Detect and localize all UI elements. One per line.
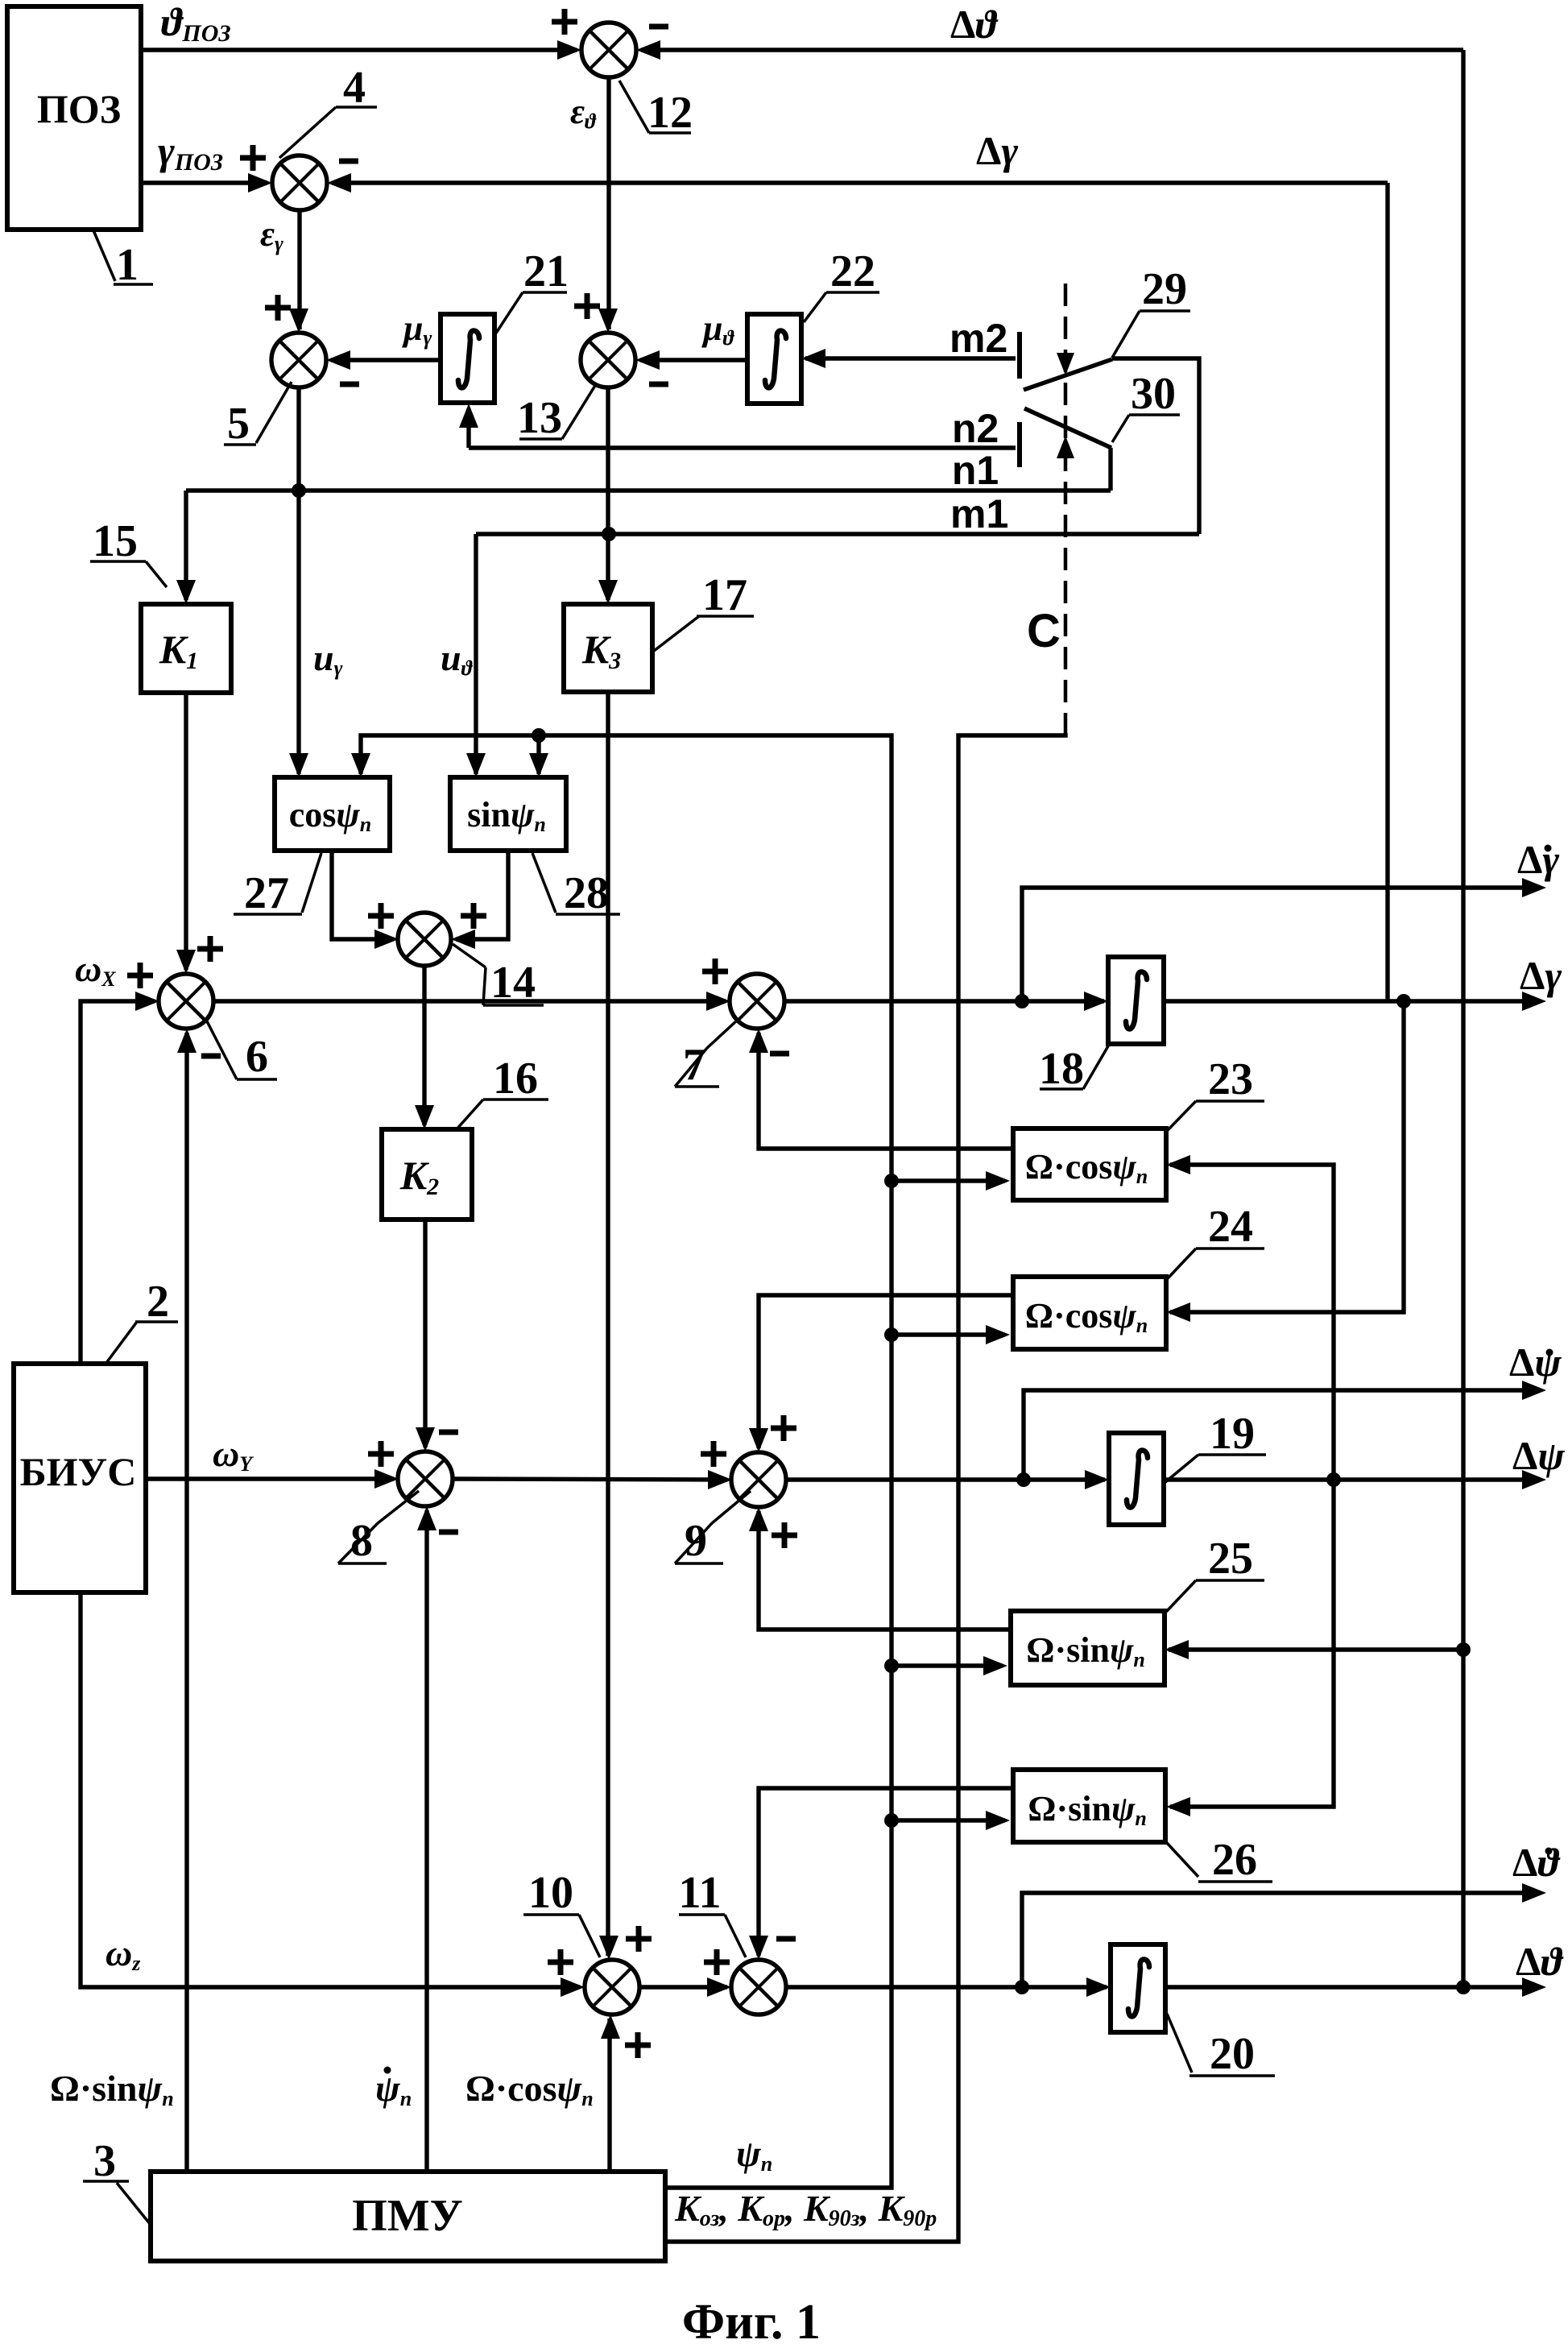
wire m2 from switch contact to integrator 22 (805, 356, 1016, 360)
svg-text:m1: m1 (950, 491, 1008, 536)
wire from block 28 to summator 14 (456, 851, 508, 939)
plus sign at summator 8 left input (368, 1441, 394, 1467)
summator 7 (730, 974, 784, 1029)
wire Delta gamma output from integrator 18 (1164, 999, 1540, 1003)
wire mu_gamma from integrator 21 to summator 5 (331, 358, 441, 362)
svg-text:m2: m2 (949, 316, 1007, 361)
plus sign at summator 6 left input (127, 963, 153, 988)
switch 30 pivot riser (1108, 448, 1112, 491)
svg-text:n1: n1 (952, 448, 999, 493)
svg-text:2: 2 (147, 1277, 169, 1327)
wire from summator 6 to summator 7 (213, 999, 726, 1003)
block 2 БИУС (14, 1364, 146, 1592)
svg-text:sinψn: sinψn (467, 795, 546, 836)
wire Delta gamma feedback from output to summator 4 (332, 180, 1388, 184)
plus sign at summator 14 right input (461, 903, 486, 929)
junction dot of summator 13 output on m1 (602, 527, 616, 541)
svg-text:23: 23 (1208, 1054, 1253, 1104)
svg-text:22: 22 (830, 246, 875, 296)
junction dot Delta psi dot tap (1016, 1472, 1031, 1487)
wire from summator 10 to summator 11 (639, 1985, 727, 1989)
junction dot on u_gamma at n1 line (292, 483, 306, 498)
summator 5 (271, 333, 326, 387)
junction dot psi_n to block 28 (532, 728, 546, 743)
branch psi_n into block 23 (892, 1178, 1005, 1182)
svg-text:29: 29 (1142, 264, 1187, 314)
plus sign at summator 4 input (240, 145, 266, 171)
svg-text:Δϑ: Δϑ (1512, 1840, 1561, 1885)
switch blade 29 (1024, 359, 1112, 390)
svg-text:Δψ: Δψ (1509, 1340, 1562, 1385)
summator 14 (398, 913, 451, 966)
minus sign at summator 6 bottom input (201, 1054, 221, 1059)
summator 11 (731, 1960, 786, 2015)
function block 26 Omega sin psi_n (1013, 1770, 1165, 1842)
switch contact m2 (1017, 332, 1022, 379)
block 3 ПМУ (151, 2172, 665, 2261)
block 1 ПОЗ (7, 6, 141, 230)
junction dot psi_n to block 26 (884, 1813, 899, 1828)
plus sign at summator 12 input (552, 9, 577, 35)
svg-text:cosψn: cosψn (289, 795, 372, 836)
plus sign at summator 10 left input (548, 1949, 573, 1975)
wire from summator 9 into integrator 19 (786, 1477, 1105, 1481)
junction dot Delta theta feedback at output (1456, 1980, 1471, 1994)
svg-text:12: 12 (647, 88, 693, 138)
svg-text:10: 10 (528, 1868, 573, 1918)
svg-text:C: C (1027, 605, 1061, 657)
branch psi_n into block 25 (892, 1663, 1003, 1667)
svg-text:1: 1 (116, 240, 139, 290)
wire from summator 13 down to K3 (606, 387, 610, 600)
svg-text:24: 24 (1208, 1202, 1253, 1252)
dashed control line C through switches (1064, 284, 1068, 733)
wire from block 25 output to summator 9 bottom (759, 1511, 1011, 1630)
wire n2 from switch contact to integrator 21 (469, 445, 1016, 449)
minus sign at summator 7 bottom input (770, 1051, 789, 1057)
svg-text:Ω·sinψn: Ω·sinψn (1026, 1630, 1145, 1671)
wire Delta theta feedback from output to summator 12 (641, 48, 1463, 52)
gain block K2 (382, 1129, 472, 1220)
wire from block 27 to summator 14 (332, 851, 394, 939)
svg-text:13: 13 (517, 393, 562, 443)
svg-text:БИУС: БИУС (20, 1449, 137, 1494)
svg-text:28: 28 (564, 868, 609, 918)
m1 right riser to blade 29 (1112, 358, 1199, 534)
svg-text:21: 21 (523, 246, 569, 296)
function block 25 Omega sin psi_n (1011, 1611, 1165, 1685)
summator 8 (398, 1451, 453, 1506)
wire from summator 7 into integrator 18 (784, 999, 1104, 1003)
svg-text:n2: n2 (952, 406, 999, 451)
wire from block 24 output to summator 9 top (759, 1295, 1013, 1448)
plus sign at summator 10 bottom input (625, 2032, 651, 2058)
wire Delta psi output from integrator 19 (1164, 1477, 1540, 1481)
function block 28 sin psi_n (450, 777, 566, 851)
svg-text:4: 4 (343, 63, 366, 113)
plus sign at summator 5 top input (265, 295, 291, 321)
wire Delta psi riser feeding blocks 23 and 26 (1170, 1165, 1334, 1807)
minus sign at summator 11 top input (776, 1936, 796, 1942)
wire u_theta down into block 28 (474, 534, 478, 774)
svg-text:25: 25 (1208, 1534, 1253, 1584)
plus sign at summator 6 top input (197, 936, 223, 962)
branch psi_n into block 24 (892, 1332, 1005, 1336)
wire omega_Y from БИУС to summator 8 (146, 1476, 394, 1480)
integrator 20 (1111, 1944, 1165, 2032)
vertical Delta gamma feedback line (1385, 183, 1389, 1001)
minus sign at summator 8 bottom input (439, 1530, 458, 1535)
branch psi_n into block 26 (892, 1818, 1005, 1822)
junction dot psi_n to block 23 (884, 1174, 899, 1188)
svg-text:30: 30 (1131, 369, 1176, 419)
branch psi_n into block 28 (536, 735, 540, 774)
wire from block 26 output to summator 11 top (759, 1788, 1013, 1956)
plus sign at summator 9 bottom input (772, 1522, 797, 1548)
wire omega_X from БИУС top to summator 6 (81, 1001, 155, 1364)
junction dot Delta theta to block 25 (1456, 1642, 1471, 1657)
wire epsilon_gamma from summator 4 to summator 5 (297, 210, 301, 329)
integrator 22 (747, 314, 801, 404)
gain block K3 (564, 604, 652, 692)
leader and numeral 3 for block ПМУ (117, 2183, 151, 2225)
switch blade 30 (1024, 408, 1111, 448)
gain block K1 (141, 604, 231, 693)
svg-text:Δγ: Δγ (1520, 953, 1562, 998)
junction dot Delta theta dot tap (1015, 1980, 1029, 1994)
minus sign at summator 8 top input (439, 1430, 458, 1435)
wire psi_dot_n from ПМУ up to summator 8 (424, 1510, 428, 2172)
wire Delta psi dot output (1024, 1390, 1540, 1480)
wire from summator 11 into integrator 20 (786, 1985, 1107, 1989)
svg-text:Ω·sinψn: Ω·sinψn (1028, 1789, 1147, 1830)
function block 23 Omega cos psi_n (1013, 1128, 1166, 1200)
wire psi_n from ПМУ to function blocks (361, 735, 892, 2188)
svg-text:15: 15 (93, 516, 138, 566)
wire gamma_POZ from ПОЗ to summator 4 (141, 180, 267, 184)
minus sign at summator 5 right input (340, 382, 359, 387)
plus sign at summator 10 top input (626, 1926, 652, 1952)
svg-text:Ω·cosψn: Ω·cosψn (1025, 1296, 1148, 1337)
integrator 19 (1109, 1433, 1164, 1525)
wire omega_z from БИУС bottom to summator 10 (81, 1592, 580, 1987)
svg-text:5: 5 (227, 399, 250, 449)
wire from summator 14 to K2 (422, 966, 426, 1125)
junction dot psi_n to block 25 (884, 1659, 899, 1673)
svg-text:18: 18 (1039, 1044, 1084, 1094)
minus sign at summator 4 right input (339, 159, 358, 164)
minus sign at summator 13 right input (649, 382, 668, 387)
switch contact n2 (1017, 422, 1022, 467)
wire epsilon_theta from summator 12 to summator 13 (606, 77, 610, 329)
wire Delta theta dot output (1022, 1893, 1540, 1987)
summator 10 (585, 1960, 639, 2015)
svg-text:19: 19 (1210, 1409, 1255, 1459)
plus sign at summator 7 left input (702, 959, 728, 984)
svg-text:27: 27 (244, 868, 289, 918)
svg-text:ПМУ: ПМУ (352, 2191, 463, 2241)
summator 13 (581, 333, 635, 387)
svg-text:20: 20 (1210, 2029, 1255, 2079)
wire Delta theta output from integrator 20 (1165, 1985, 1540, 1989)
junction dot psi_n to block 24 (884, 1327, 899, 1342)
svg-text:Фиг. 1: Фиг. 1 (682, 2295, 821, 2348)
wire from K2 to summator 8 (423, 1220, 427, 1447)
svg-text:Δϑ: Δϑ (950, 2, 999, 47)
wire from summator 5 down to block 27 (u_gamma) (296, 387, 300, 774)
wire mu_theta from integrator 22 to summator 13 (640, 358, 747, 362)
svg-text:Ω·cosψn: Ω·cosψn (465, 2068, 594, 2110)
wire Omega cos psi_n from ПМУ up to summator 10 (607, 2019, 611, 2172)
svg-text:Δψ: Δψ (1512, 1433, 1565, 1478)
wire from block 23 output to summator 7 bottom (759, 1033, 1013, 1149)
wire m1 from u_theta corner to switch 29 (476, 532, 1199, 536)
integrator 18 (1108, 957, 1164, 1044)
wire Omega sin psi_n from ПМУ up to summator 6 (184, 1033, 188, 2172)
plus sign at summator 11 left input (704, 1949, 730, 1975)
function block 24 Omega cos psi_n (1013, 1277, 1166, 1349)
summator 4 (272, 155, 327, 210)
junction dot Delta gamma feedback (1396, 994, 1411, 1008)
svg-text:6: 6 (246, 1032, 268, 1082)
plus sign at summator 9 left input (701, 1441, 726, 1467)
wire Delta gamma from junction down to block 24 (1170, 1001, 1404, 1312)
svg-text:Δϑ: Δϑ (1516, 1939, 1564, 1984)
svg-text:Δγ: Δγ (976, 128, 1018, 173)
svg-text:11: 11 (679, 1868, 722, 1918)
leader and numeral 1 for block ПОЗ (93, 230, 115, 281)
wire Delta gamma dot output (1022, 888, 1540, 1001)
summator 12 (581, 23, 636, 77)
svg-text:Ω·sinψn: Ω·sinψn (50, 2068, 174, 2110)
minus sign at summator 12 right input (649, 24, 668, 30)
junction dot Delta gamma dot tap (1015, 994, 1029, 1008)
summator 9 (731, 1452, 786, 1507)
vertical Delta theta feedback line at right (1461, 50, 1465, 1987)
wire from K3 down to summator 10 (606, 692, 610, 1956)
svg-text:ПОЗ: ПОЗ (37, 86, 121, 131)
svg-text:17: 17 (702, 570, 747, 620)
summator 6 (159, 974, 213, 1029)
wire theta_POZ from ПОЗ to summator 12 (141, 48, 577, 52)
control arrow onto blade 29 (1057, 353, 1074, 375)
function block 27 cos psi_n (275, 777, 390, 851)
svg-text:Ω·cosψn: Ω·cosψn (1025, 1147, 1148, 1188)
wire from summator 8 to summator 9 (453, 1479, 727, 1480)
leader and numeral 2 for block БИУС (106, 1322, 137, 1363)
plus sign at summator 9 top input (771, 1415, 796, 1441)
wire Delta theta branch into block 25 (1169, 1647, 1463, 1651)
control arrow onto blade 30 (1057, 436, 1074, 458)
n2 branch up into integrator 21 (466, 408, 470, 448)
plus sign at summator 13 top input (574, 293, 600, 319)
n1 branch down into K1 (184, 491, 188, 600)
wire n1 from junction to switch 30 (186, 488, 1111, 492)
integrator 21 (441, 314, 494, 403)
wire C from ПМУ bus up to switch control (665, 733, 1065, 2242)
wire from K1 to summator 6 (184, 693, 188, 970)
svg-text:26: 26 (1212, 1835, 1257, 1885)
svg-text:Δγ: Δγ (1517, 837, 1559, 882)
svg-text:3: 3 (93, 2136, 116, 2186)
plus sign at summator 14 left input (368, 903, 394, 929)
svg-text:16: 16 (493, 1054, 538, 1104)
junction dot Delta psi to block 23 riser (1326, 1472, 1341, 1487)
